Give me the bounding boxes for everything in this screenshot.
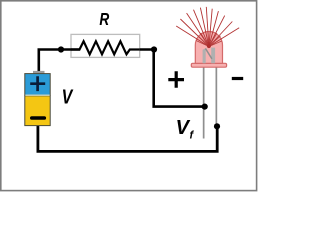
LED D1 bond wire	[205, 48, 212, 58]
junction node cathode-wire	[214, 123, 220, 129]
border frame (decorative)	[1, 1, 257, 191]
svg-text:V: V	[176, 117, 191, 139]
svg-text:f: f	[190, 130, 195, 142]
battery V body positive (blue)	[25, 74, 50, 96]
junction node at battery-resistor wire	[58, 46, 64, 52]
svg-text:R: R	[99, 11, 109, 30]
junction node anode-wire	[202, 104, 208, 110]
battery minus symbol	[32, 116, 45, 120]
LED D1 internal anvil post	[203, 48, 206, 63]
wire LED cathode to battery negative (bottom return)	[38, 125, 217, 151]
resistor R box	[71, 34, 140, 57]
LED D1 internal post	[211, 48, 215, 64]
LED D1 right leg (cathode)	[216, 66, 218, 127]
battery V body negative (yellow)	[25, 96, 50, 126]
LED cathode minus label	[232, 77, 243, 80]
LED anode plus label	[168, 71, 184, 87]
LED inner fan rays	[196, 33, 222, 47]
wire battery top to resistor	[39, 50, 80, 73]
LED D1 left leg (anode)	[203, 66, 205, 139]
LED D1 dome	[195, 32, 222, 64]
label V	[62, 85, 74, 108]
LED light rays	[176, 7, 239, 47]
label R	[99, 11, 109, 30]
battery divider line	[25, 95, 49, 96]
wire resistor to LED anode	[140, 50, 205, 107]
resistor R zigzag	[71, 41, 140, 54]
LED ray convergence point	[207, 44, 211, 48]
battery V terminal nub	[33, 71, 45, 74]
junction node at resistor output	[151, 46, 157, 52]
LED D1 flange	[191, 63, 226, 67]
battery plus symbol	[30, 76, 45, 91]
svg-text:V: V	[62, 85, 74, 108]
